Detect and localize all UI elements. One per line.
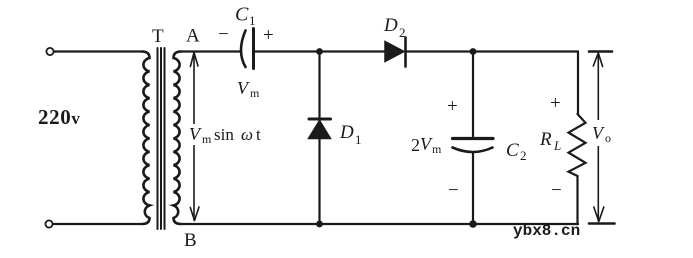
node junction C1/D1/D2 (316, 48, 323, 55)
svg-text:A: A (186, 26, 200, 47)
capacitor C1 plates (241, 31, 246, 68)
svg-text:1: 1 (249, 13, 256, 28)
wire bottom rail (181, 223, 578, 225)
Vo measurement arrow (589, 52, 615, 224)
resistor RL bottom wire (576, 176, 579, 224)
diode D2 (horizontal, pointing right) (385, 42, 404, 62)
transformer secondary winding (174, 52, 182, 225)
svg-text:2: 2 (520, 148, 527, 163)
capacitor C2 branch wire bottom (472, 153, 474, 225)
diode D1 (vertical, pointing up) (318, 52, 320, 122)
node junction D2/C2 (470, 48, 477, 55)
transformer core (158, 48, 165, 229)
capacitor C2 plates (453, 137, 494, 140)
svg-text:m: m (432, 142, 442, 156)
wire top-left (54, 50, 142, 52)
terminal top-left (46, 48, 53, 55)
svg-text:B: B (184, 230, 197, 251)
svg-text:ybx8.cn: ybx8.cn (513, 222, 580, 240)
svg-text:m: m (250, 86, 260, 100)
wire bottom-left (53, 223, 141, 225)
svg-text:V: V (237, 78, 250, 98)
label Vm sin wt (187, 124, 267, 145)
svg-text:sin: sin (214, 125, 234, 144)
svg-text:1: 1 (355, 132, 362, 147)
svg-text:ω: ω (241, 125, 253, 144)
svg-text:+: + (263, 25, 274, 46)
transformer primary winding (142, 52, 150, 225)
svg-text:m: m (202, 132, 212, 146)
label Vo (590, 120, 616, 146)
svg-text:T: T (152, 26, 164, 47)
svg-text:2: 2 (411, 135, 420, 155)
Vm sin wt arrow (node A to node B) (190, 53, 199, 221)
capacitor C2 branch wire top (472, 52, 474, 137)
svg-text:220v: 220v (38, 105, 80, 129)
node junction D1 bottom (316, 221, 323, 228)
svg-text:−: − (218, 24, 229, 45)
wire secondary top to C1 (181, 50, 240, 52)
svg-text:t: t (256, 125, 261, 144)
wire D2 to top-right corner (406, 50, 579, 52)
svg-text:L: L (553, 138, 561, 153)
svg-text:+: + (550, 93, 561, 114)
resistor RL zigzag (569, 114, 586, 176)
svg-text:D: D (383, 15, 398, 36)
svg-text:D: D (339, 122, 354, 143)
svg-text:−: − (551, 180, 562, 201)
svg-text:−: − (448, 180, 459, 201)
svg-text:R: R (539, 129, 552, 150)
svg-text:C: C (235, 4, 249, 26)
wire C1 to D2 (254, 50, 386, 52)
svg-text:+: + (447, 96, 458, 117)
svg-text:o: o (605, 131, 611, 145)
svg-text:2: 2 (399, 25, 406, 40)
resistor RL branch: top wire (577, 52, 579, 115)
node junction C2 bottom (469, 220, 477, 228)
terminal bottom-left (45, 220, 52, 227)
svg-text:C: C (506, 140, 519, 161)
